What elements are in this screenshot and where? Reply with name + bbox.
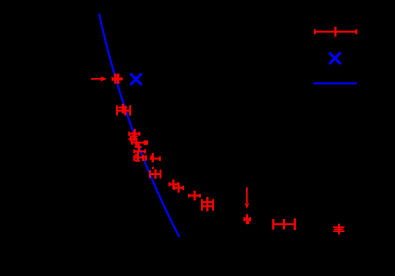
legend entry 2: blue X marker sample [329,53,340,64]
data point P2a with x error bar [119,104,128,114]
data point P12 with x error bar [150,153,161,162]
data point P9 short bar [135,154,138,156]
data point P7 with x error bar [135,142,142,151]
data point P1 with x error bar [112,74,123,84]
legend entry 3: blue line sample [313,82,357,84]
blue fit curve [99,14,179,237]
data point P5 small x error bar [129,137,133,142]
data point P6 with x error bar [131,138,147,147]
data point P10 with x error bar [134,155,146,161]
data point P19 with x error bar [244,214,250,224]
data point P17 with x error bar [202,199,214,211]
data point P13 with x error bar [150,169,161,179]
data point P4 with x error bar [130,132,138,142]
data point P2b with x error bar [117,105,131,115]
data point P20 wide x error bar [273,218,296,230]
downward annotation arrow (upper limit) [245,187,250,208]
data point P11 short bar [135,160,140,162]
blue X marker in plot [130,74,141,85]
horizontal annotation arrow pointing to first data point [91,76,107,81]
legend entry 1: red error bar sample [314,27,357,37]
data point cluster P21 stacked error bars [333,224,344,235]
data point P14 with x error bar [169,179,179,189]
data point P18 with x error bar [202,197,214,211]
data point P8 with x error bar [134,149,146,162]
data point P15 with x error bar [174,183,184,193]
data point P16 with x error bar [189,191,201,201]
small red tick above P13 [152,167,154,169]
data point P3 with x error bar [129,129,140,139]
